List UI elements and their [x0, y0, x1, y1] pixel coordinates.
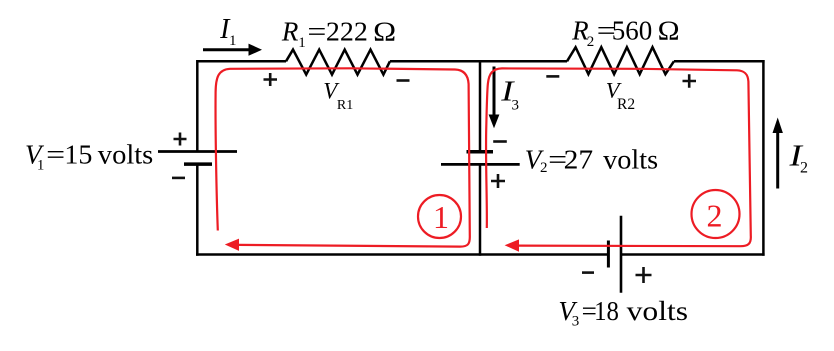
mesh number circle 1	[418, 195, 461, 238]
battery V3 long plate (+)	[620, 216, 623, 293]
red mesh loop 1	[216, 68, 470, 246]
resistor R2	[567, 47, 674, 74]
red mesh loop 2	[486, 68, 751, 246]
battery V1 long plate (+)	[158, 150, 237, 153]
wire: right edge	[762, 60, 765, 256]
polarity + at V3 right	[636, 267, 652, 283]
mesh number circle 2	[692, 190, 740, 238]
wire: bottom right segment (V3 to right corner)	[621, 253, 765, 256]
wire: middle branch upper (node B to V2)	[479, 60, 482, 152]
svg-text:R1=222Ω: R1=222Ω	[281, 17, 396, 52]
polarity - at R1 right	[397, 79, 410, 82]
current arrow I3	[489, 67, 500, 129]
svg-text:1: 1	[433, 199, 449, 235]
red mesh loop 2 arrowhead	[505, 239, 519, 251]
wire: left edge upper (corner to V1)	[196, 60, 199, 152]
wire: left edge lower (V1 to bottom corner)	[196, 164, 199, 256]
current arrow I2	[773, 118, 783, 189]
svg-text:2: 2	[707, 198, 723, 234]
svg-text:R2=560Ω: R2=560Ω	[571, 16, 680, 51]
polarity + at R1 left	[264, 73, 278, 86]
wire: top right segment (R2 to right corner)	[674, 60, 765, 63]
polarity + at V2 bottom	[491, 174, 505, 188]
polarity - at V1 bottom	[172, 177, 185, 180]
current arrow I1	[203, 44, 262, 56]
battery V2 long plate (+)	[441, 163, 520, 166]
wire: bottom left segment (corner to V3)	[196, 253, 608, 256]
wire: middle branch lower (V2 to bottom wire)	[479, 164, 482, 255]
polarity - at V3 left	[582, 271, 594, 274]
battery V2 short plate (-)	[467, 150, 494, 154]
polarity - at R2 left	[546, 75, 559, 78]
wire: top middle segment (R1 to R2 through node B)	[390, 60, 567, 63]
red mesh loop 1 arrowhead	[225, 239, 239, 251]
battery V1 short plate (-)	[184, 162, 212, 166]
wire: top left segment (node A to R1)	[197, 60, 286, 63]
polarity + at R2 right	[683, 74, 697, 87]
polarity + at V1 top	[174, 133, 187, 146]
polarity - at V2 top	[493, 140, 507, 143]
resistor R1	[286, 50, 390, 75]
battery V3 short plate (-)	[607, 241, 610, 268]
